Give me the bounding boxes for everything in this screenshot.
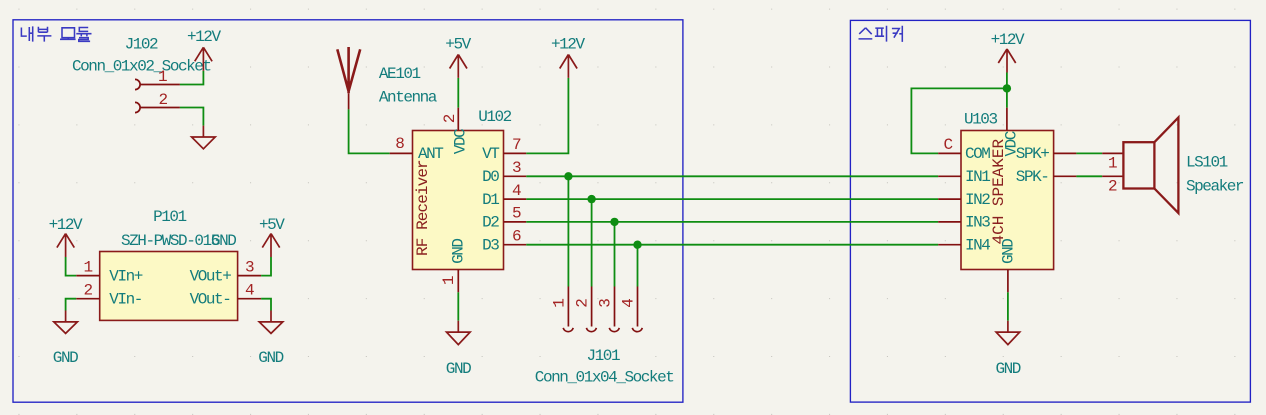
svg-text:3: 3 <box>512 159 521 177</box>
svg-text:D2: D2 <box>482 214 499 232</box>
svg-text:4: 4 <box>512 182 521 200</box>
svg-text:J102: J102 <box>125 36 158 54</box>
svg-text:AE101: AE101 <box>379 65 421 83</box>
svg-text:Conn_01x02_Socket: Conn_01x02_Socket <box>72 57 211 75</box>
svg-text:2: 2 <box>1108 178 1117 196</box>
svg-text:U102: U102 <box>478 108 511 126</box>
svg-text:1: 1 <box>1108 155 1117 173</box>
svg-text:VOut-: VOut- <box>190 291 231 309</box>
svg-text:IN3: IN3 <box>965 214 990 232</box>
svg-text:7: 7 <box>512 136 521 154</box>
svg-text:+12V: +12V <box>991 31 1025 49</box>
svg-text:J101: J101 <box>587 347 620 365</box>
svg-text:VT: VT <box>482 145 499 163</box>
svg-text:GND: GND <box>258 349 283 367</box>
svg-text:C: C <box>944 136 953 154</box>
svg-text:3: 3 <box>597 299 615 308</box>
svg-text:4: 4 <box>245 282 254 300</box>
svg-text:Speaker: Speaker <box>1186 177 1244 195</box>
svg-text:GND: GND <box>996 360 1021 378</box>
svg-text:1: 1 <box>158 68 167 86</box>
svg-text:+12V: +12V <box>49 216 83 234</box>
svg-text:1: 1 <box>84 259 93 277</box>
svg-text:2: 2 <box>574 299 592 308</box>
svg-text:GND: GND <box>446 360 471 378</box>
svg-text:+12V: +12V <box>187 28 221 46</box>
svg-text:VIn-: VIn- <box>109 291 142 309</box>
svg-text:+12V: +12V <box>551 35 585 53</box>
svg-text:Antenna: Antenna <box>379 89 438 107</box>
svg-text:VDC: VDC <box>452 129 470 154</box>
svg-text:+5V: +5V <box>259 216 285 234</box>
svg-text:+5V: +5V <box>445 35 471 53</box>
svg-text:SZH-PWSD-015: SZH-PWSD-015 <box>121 232 220 250</box>
svg-text:GND: GND <box>1000 239 1018 264</box>
svg-text:SPK-: SPK- <box>1016 168 1049 186</box>
svg-text:IN4: IN4 <box>965 237 990 255</box>
svg-text:VIn+: VIn+ <box>109 267 142 285</box>
svg-text:4CH SPEAKER: 4CH SPEAKER <box>990 138 1008 244</box>
svg-text:VOut+: VOut+ <box>190 267 232 285</box>
svg-text:GND: GND <box>449 239 467 264</box>
svg-text:IN2: IN2 <box>965 191 990 209</box>
svg-text:D3: D3 <box>482 237 499 255</box>
svg-text:8: 8 <box>395 135 404 153</box>
svg-text:GND: GND <box>53 349 78 367</box>
svg-text:IN1: IN1 <box>965 168 990 186</box>
svg-text:6: 6 <box>512 227 521 245</box>
svg-text:5: 5 <box>512 205 521 223</box>
svg-text:P101: P101 <box>153 208 186 226</box>
svg-text:2: 2 <box>159 91 168 109</box>
svg-text:2: 2 <box>84 282 93 300</box>
svg-text:1: 1 <box>440 276 458 285</box>
svg-text:D0: D0 <box>482 168 499 186</box>
svg-text:1: 1 <box>550 299 568 308</box>
svg-text:RF Receiver: RF Receiver <box>414 160 432 256</box>
svg-text:Conn_01x04_Socket: Conn_01x04_Socket <box>535 369 674 387</box>
svg-text:LS101: LS101 <box>1186 153 1228 171</box>
svg-text:2: 2 <box>441 114 459 123</box>
svg-text:4: 4 <box>620 299 638 308</box>
svg-text:U103: U103 <box>964 111 997 129</box>
svg-text:SPK+: SPK+ <box>1016 145 1049 163</box>
svg-text:3: 3 <box>245 259 254 277</box>
svg-text:GND: GND <box>211 232 236 250</box>
svg-text:COM: COM <box>965 145 990 163</box>
svg-text:D1: D1 <box>482 191 499 209</box>
